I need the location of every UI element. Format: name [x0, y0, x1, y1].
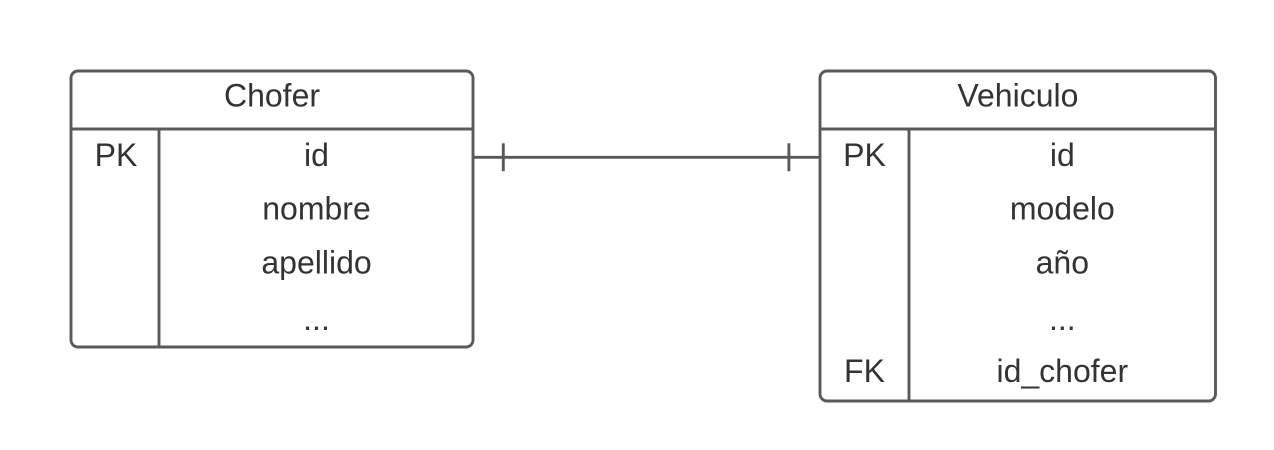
svg-text:Chofer: Chofer — [224, 78, 320, 114]
Chofer header divider — [71, 128, 473, 131]
svg-text:Vehiculo: Vehiculo — [957, 78, 1078, 114]
svg-text:año: año — [1036, 245, 1089, 281]
svg-text:modelo: modelo — [1010, 191, 1115, 227]
svg-text:nombre: nombre — [262, 191, 371, 227]
entity table Vehiculo (outer box) — [820, 71, 1216, 401]
svg-text:apellido: apellido — [261, 245, 371, 281]
Chofer key-column divider — [158, 129, 161, 347]
svg-text:PK: PK — [95, 137, 138, 173]
Vehiculo header divider — [820, 128, 1216, 131]
svg-text:...: ... — [303, 301, 330, 337]
cardinality tick (one) near Chofer — [502, 143, 505, 171]
svg-text:id_chofer: id_chofer — [996, 353, 1128, 389]
svg-text:...: ... — [1049, 301, 1076, 337]
relationship wire Chofer-Vehiculo — [473, 156, 820, 159]
entity table Chofer (outer box) — [71, 71, 473, 347]
svg-text:PK: PK — [843, 137, 886, 173]
cardinality tick (one) near Vehiculo — [787, 143, 790, 171]
svg-text:FK: FK — [844, 353, 885, 389]
svg-text:id: id — [304, 137, 329, 173]
Vehiculo key-column divider — [908, 129, 911, 401]
svg-text:id: id — [1050, 137, 1075, 173]
